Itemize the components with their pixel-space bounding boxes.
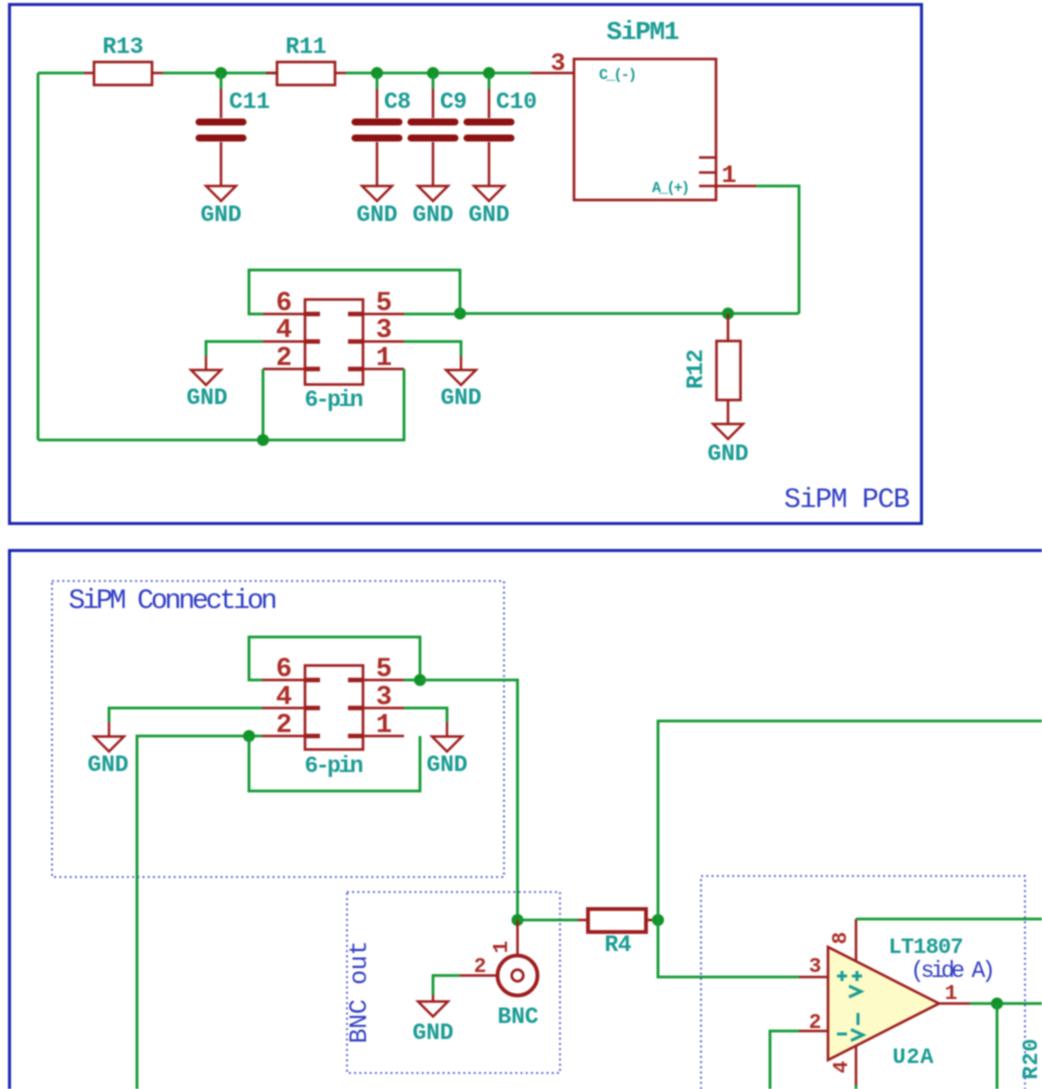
- pin 3 of J2: [363, 683, 404, 713]
- svg-text:1: 1: [491, 941, 514, 954]
- svg-text:5: 5: [376, 289, 392, 319]
- svg-text:1: 1: [376, 711, 392, 741]
- svg-text:R4: R4: [605, 932, 632, 958]
- wire SiPM1 pin1 down to bus: [756, 186, 799, 314]
- sheet 2 border: [10, 551, 1042, 1089]
- wire pin5 to junction: [404, 313, 460, 316]
- svg-text:C_(-): C_(-): [599, 67, 637, 84]
- svg-text:6-pin: 6-pin: [305, 753, 364, 779]
- node junction R4 right: [652, 914, 664, 926]
- svg-text:GND: GND: [469, 202, 510, 228]
- pin 4 of J1: [263, 316, 305, 346]
- svg-text:R20: R20: [1019, 1039, 1042, 1080]
- node junction BNC tap: [512, 914, 524, 926]
- wire top left segment: [38, 72, 84, 75]
- svg-text:GND: GND: [708, 441, 749, 467]
- ground under C9: [413, 186, 454, 228]
- connector J2 6-pin body: [305, 666, 364, 780]
- wire junction to BNC column: [420, 680, 518, 920]
- wire junction to R4: [518, 919, 579, 922]
- wire U2A pin8 supply: [856, 918, 1042, 921]
- photodiode SiPM1: [574, 17, 716, 200]
- ground at J1 pin3: [441, 370, 482, 411]
- node junction C8 tap: [371, 67, 383, 79]
- svg-text:6: 6: [276, 655, 292, 685]
- wire down to op-amp plus input: [658, 920, 799, 977]
- capacitor C9: [411, 73, 467, 186]
- pin 6 of J1: [263, 289, 305, 319]
- wire feedback up right: [658, 721, 1042, 920]
- svg-text:GND: GND: [88, 752, 129, 778]
- ground at J2 pin3: [427, 737, 468, 779]
- wire BNC pin2 to ground: [433, 976, 460, 996]
- svg-text:6: 6: [276, 289, 292, 319]
- node junction R12 tap: [722, 308, 734, 320]
- node junction bottom: [257, 434, 269, 446]
- svg-text:6-pin: 6-pin: [305, 387, 364, 413]
- resistor R4: [578, 909, 656, 958]
- group box BNC out: [347, 892, 560, 1073]
- svg-text:BNC: BNC: [498, 1004, 539, 1030]
- node junction pin2 J2: [243, 730, 255, 742]
- pin 2 of J2: [262, 711, 305, 741]
- svg-text:5: 5: [376, 655, 392, 685]
- svg-text:SiPM PCB: SiPM PCB: [784, 485, 910, 516]
- svg-text:3: 3: [809, 956, 822, 979]
- wire R11 to SiPM1: [346, 72, 531, 75]
- ground under C11: [201, 186, 242, 228]
- resistor R12: [683, 314, 741, 425]
- wire pin2 loop under connector J2: [249, 736, 420, 791]
- ground under R12: [708, 424, 749, 467]
- wire pin2 left and down offpage: [137, 736, 262, 1089]
- connector J1 6-pin body: [305, 300, 364, 414]
- group box SiPM Connection: [52, 581, 504, 877]
- svg-text:GND: GND: [187, 385, 228, 411]
- svg-text:4: 4: [276, 316, 292, 346]
- svg-text:2: 2: [276, 344, 292, 374]
- svg-text:2: 2: [474, 956, 487, 979]
- node junction output: [991, 998, 1003, 1010]
- wire pin3 to ground J2: [404, 708, 447, 722]
- ground at J2 pin4: [88, 737, 129, 779]
- svg-text:3: 3: [376, 683, 392, 713]
- svg-text:C11: C11: [229, 89, 270, 115]
- ground under C8: [357, 186, 398, 228]
- svg-text:GND: GND: [413, 1020, 454, 1046]
- svg-text:GND: GND: [413, 202, 454, 228]
- svg-text:R13: R13: [103, 34, 144, 60]
- svg-text:BNC out: BNC out: [345, 941, 374, 1044]
- resistor R13: [84, 34, 163, 85]
- node junction C11 tap: [215, 67, 227, 79]
- svg-text:GND: GND: [441, 385, 482, 411]
- sheet SiPM PCB border: [10, 5, 922, 524]
- svg-text:2: 2: [276, 711, 292, 741]
- wire pin2 down: [262, 369, 265, 440]
- svg-text:R11: R11: [286, 34, 327, 60]
- wire bottom left: [38, 439, 263, 442]
- group box op-amp: [701, 876, 1025, 1089]
- pin 2 of U2A: [799, 1012, 828, 1035]
- wire U2A pin2 from below: [770, 1031, 799, 1089]
- pin 1 of SiPM1: [652, 161, 756, 197]
- pin 5 of J1: [363, 289, 404, 319]
- node junction C9 tap: [427, 67, 439, 79]
- svg-text:SiPM Connection: SiPM Connection: [69, 586, 278, 617]
- pin 5 of J2: [363, 655, 404, 685]
- svg-text:3: 3: [376, 316, 392, 346]
- svg-text:3: 3: [550, 49, 565, 78]
- wire pin3 to ground: [404, 342, 461, 357]
- svg-text:2: 2: [809, 1012, 822, 1035]
- svg-text:GND: GND: [427, 752, 468, 778]
- svg-text:C8: C8: [384, 89, 411, 115]
- pin 2 of J1: [263, 344, 305, 374]
- svg-text:C9: C9: [440, 89, 467, 115]
- svg-text:C10: C10: [496, 89, 537, 115]
- svg-text:R12: R12: [683, 349, 709, 389]
- wire output down: [996, 1004, 999, 1089]
- wire pin6 loop over connector J2: [249, 637, 420, 680]
- pin 3 of SiPM1: [531, 49, 637, 84]
- resistor R11: [266, 34, 346, 85]
- ground at BNC: [413, 1002, 454, 1047]
- pin 6 of J2: [262, 655, 305, 685]
- svg-text:1: 1: [945, 983, 958, 1006]
- wire R13 to R11: [163, 72, 277, 75]
- svg-text:4: 4: [276, 683, 292, 713]
- pin 4 of U2A: [831, 1046, 856, 1085]
- svg-text:LT1807: LT1807: [889, 935, 964, 960]
- svg-text:1: 1: [721, 161, 736, 190]
- wire U2A pin4 down: [855, 1085, 858, 1089]
- svg-text:(side A): (side A): [911, 958, 996, 984]
- svg-text:GND: GND: [201, 202, 242, 228]
- wire horizontal bus to connector pin5: [460, 312, 799, 315]
- ground at J1 pin4: [187, 370, 228, 411]
- pin 3 of U2A: [799, 956, 828, 979]
- wire pin6 loop over connector: [249, 270, 460, 314]
- svg-text:U2A: U2A: [893, 1045, 935, 1070]
- wire U2A output right: [970, 1002, 1042, 1005]
- wire pin5 to junction J2: [404, 679, 420, 682]
- capacitor C10: [467, 73, 537, 186]
- pin 1 of J1: [363, 344, 404, 374]
- pin 1 of J2: [363, 711, 404, 741]
- pin 4 of J2: [262, 683, 305, 713]
- wire left wall: [37, 73, 40, 440]
- node junction pin5: [454, 308, 466, 320]
- svg-text:A_(+): A_(+): [652, 180, 690, 197]
- pin 8 of U2A: [830, 919, 856, 961]
- wire bottom to pin1: [263, 369, 404, 440]
- svg-text:4: 4: [831, 1061, 854, 1074]
- ground under C10: [469, 186, 510, 228]
- svg-text:8: 8: [830, 932, 853, 945]
- svg-text:GND: GND: [357, 202, 398, 228]
- pin 1 of U2A: [939, 983, 970, 1006]
- pin 2 of BNC: [460, 956, 499, 979]
- node junction pin5 J2: [414, 674, 426, 686]
- pin 3 of J1: [363, 316, 404, 346]
- node junction C10 tap: [483, 67, 495, 79]
- capacitor C11: [199, 73, 270, 186]
- wire R4 to junction: [656, 919, 658, 922]
- connector BNC: [498, 920, 539, 1030]
- wire pin4 to ground: [206, 342, 263, 357]
- op-amp U2A: [828, 935, 996, 1070]
- wire pin4 to ground J2: [109, 708, 262, 722]
- svg-text:SiPM1: SiPM1: [607, 17, 680, 47]
- svg-text:1: 1: [376, 344, 392, 374]
- capacitor C8: [355, 73, 411, 186]
